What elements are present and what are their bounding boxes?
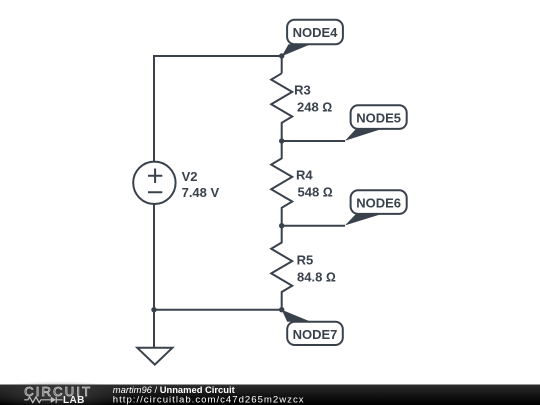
footer logo resistor-diode glyph bbox=[24, 397, 62, 403]
svg-text:NODE5: NODE5 bbox=[356, 111, 401, 126]
svg-text:R3: R3 bbox=[294, 82, 311, 97]
node A junction dot NODE4 bbox=[279, 53, 284, 58]
svg-text:7.48 V: 7.48 V bbox=[182, 185, 220, 200]
resistor R4 bbox=[271, 141, 292, 226]
node E junction dot ground bbox=[151, 307, 156, 312]
wire stub node5 bbox=[282, 140, 345, 142]
node B junction dot NODE5 bbox=[279, 138, 284, 143]
node C junction dot NODE6 bbox=[279, 223, 284, 228]
resistor R5 bbox=[271, 226, 292, 310]
wire top horizontal bbox=[154, 55, 282, 57]
svg-text:NODE7: NODE7 bbox=[293, 327, 338, 342]
svg-text:V2: V2 bbox=[182, 169, 198, 184]
svg-text:NODE6: NODE6 bbox=[356, 196, 401, 211]
svg-text:84.8 Ω: 84.8 Ω bbox=[297, 270, 336, 285]
wire left rail upper bbox=[153, 55, 155, 162]
node NODE4 callout bbox=[282, 20, 343, 57]
wire right rail top stub bbox=[281, 56, 283, 73]
node NODE7 callout bbox=[282, 310, 343, 345]
svg-text:http://circuitlab.com/c47d265m: http://circuitlab.com/c47d265m2wzcx bbox=[113, 394, 305, 405]
label V2 value bbox=[182, 169, 220, 200]
svg-text:R5: R5 bbox=[297, 252, 314, 267]
label R3 value bbox=[294, 82, 332, 114]
svg-text:NODE4: NODE4 bbox=[293, 25, 339, 40]
wire left rail lower bbox=[153, 204, 155, 310]
svg-text:248 Ω: 248 Ω bbox=[297, 100, 332, 115]
footer CircuitLab logo wordmark bbox=[24, 384, 92, 405]
svg-text:LAB: LAB bbox=[63, 395, 85, 405]
node NODE6 callout bbox=[345, 190, 407, 225]
footer attribution text bbox=[113, 384, 305, 405]
svg-text:548 Ω: 548 Ω bbox=[298, 185, 333, 200]
label R5 value bbox=[297, 252, 336, 284]
node NODE5 callout bbox=[345, 105, 407, 140]
wire stub node6 bbox=[282, 225, 345, 227]
svg-text:martim96 / Unnamed Circuit: martim96 / Unnamed Circuit bbox=[113, 384, 235, 395]
wire bottom horizontal bbox=[154, 309, 282, 311]
resistor R3 bbox=[271, 73, 292, 141]
svg-text:R4: R4 bbox=[296, 167, 313, 182]
ground bbox=[137, 310, 172, 365]
node D junction dot NODE7 bbox=[279, 307, 284, 312]
voltage source V2 bbox=[133, 162, 175, 204]
label R4 value bbox=[296, 167, 333, 199]
footer bar bbox=[0, 381, 540, 405]
